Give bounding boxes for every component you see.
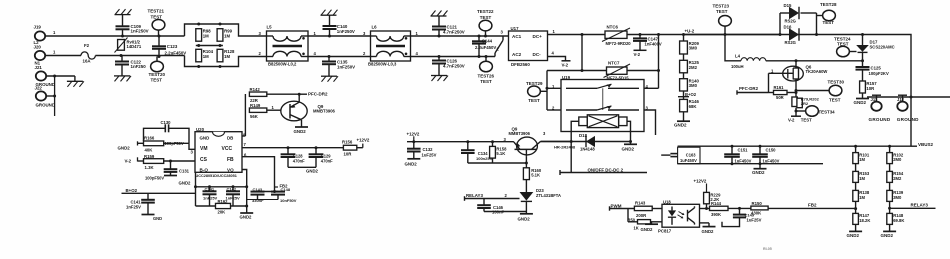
- wire drive riser: [244, 94, 246, 136]
- svg-text:TEST28: TEST28: [820, 2, 837, 7]
- svg-text:10R: 10R: [344, 152, 353, 157]
- capacitor C129 470nF: [315, 146, 318, 149]
- capacitor C163 1uF450V: [661, 154, 670, 156]
- capacitor C132 1uF25V: [413, 142, 415, 149]
- svg-text:TK20A60W: TK20A60W: [806, 69, 828, 74]
- svg-text:1M: 1M: [859, 195, 865, 200]
- svg-text:PWM: PWM: [611, 203, 622, 208]
- net FB2 tick: [275, 186, 279, 188]
- svg-text:PFC-DR2: PFC-DR2: [739, 86, 759, 91]
- svg-text:2.2uF450V: 2.2uF450V: [165, 50, 187, 55]
- svg-text:PC817: PC817: [658, 228, 672, 233]
- svg-text:5.1K: 5.1K: [496, 151, 505, 156]
- svg-text:TEST21: TEST21: [148, 9, 165, 14]
- resistor R161: [769, 92, 774, 94]
- svg-text:18.2K: 18.2K: [859, 218, 870, 223]
- earth ground near J21: [74, 76, 76, 81]
- svg-text:L6: L6: [372, 25, 378, 30]
- relay bottom switch: [566, 109, 597, 111]
- ground GND2 under Q9: [295, 126, 308, 128]
- ground GND2 under C131: [164, 175, 177, 177]
- resistor R139 3M0: [889, 182, 891, 190]
- svg-text:C131: C131: [179, 168, 190, 173]
- resistor R148 69.8K: [887, 213, 893, 224]
- svg-text:C144: C144: [482, 39, 493, 44]
- svg-text:GND2: GND2: [854, 100, 867, 105]
- svg-text:UCC28051D/UCC28051: UCC28051D/UCC28051: [196, 174, 237, 178]
- wire coil right lead: [627, 121, 631, 141]
- wire J21 to earth: [46, 75, 75, 77]
- wire to VM pin: [164, 142, 189, 144]
- svg-text:GND2: GND2: [702, 229, 715, 234]
- svg-text:1nF250V: 1nF250V: [337, 64, 355, 69]
- capacitor C130 100pF50V: [144, 128, 166, 141]
- wire B-O pin down: [195, 172, 197, 206]
- capacitor C126: [438, 55, 441, 58]
- net B+O2 tick: [683, 91, 685, 99]
- svg-text:3M0: 3M0: [689, 83, 698, 88]
- resistor R102 2M0: [888, 145, 891, 148]
- capacitor C147: [639, 33, 642, 36]
- svg-text:100pF50V: 100pF50V: [145, 176, 164, 181]
- svg-text:GND2: GND2: [306, 168, 319, 173]
- svg-text:TEST: TEST: [528, 98, 540, 103]
- svg-text:2M2: 2M2: [893, 176, 902, 181]
- svg-text:C143: C143: [253, 187, 263, 192]
- wire output top: [861, 33, 864, 36]
- resistor R209 3M0: [683, 35, 685, 42]
- resistor R140 3M0: [683, 73, 685, 79]
- svg-text:+12V2: +12V2: [357, 137, 370, 142]
- wire vcc caps gnd: [288, 166, 316, 168]
- wire to CS pin: [164, 160, 195, 162]
- svg-text:AC2: AC2: [512, 52, 522, 57]
- svg-text:2R2: 2R2: [801, 101, 809, 106]
- wire ground line J11 J12: [867, 96, 950, 98]
- svg-text:1M: 1M: [203, 54, 209, 59]
- svg-text:GND2: GND2: [752, 170, 765, 175]
- svg-text:1M: 1M: [224, 33, 230, 38]
- wire neutral to fuse: [45, 55, 81, 57]
- ground GND2 comp: [240, 212, 253, 214]
- svg-text:RI-05: RI-05: [763, 247, 772, 251]
- svg-text:B+O2: B+O2: [126, 188, 138, 193]
- fuse F2 16A: [81, 52, 95, 59]
- svg-text:GND2: GND2: [294, 129, 307, 134]
- svg-text:MMBT3906: MMBT3906: [313, 109, 336, 114]
- svg-text:2M0: 2M0: [893, 157, 902, 162]
- svg-text:R144: R144: [711, 201, 722, 206]
- capacitor C128 470nF: [287, 146, 290, 149]
- connector J19: [35, 31, 45, 40]
- wire J22 to trunk: [46, 95, 54, 97]
- svg-text:GND2: GND2: [674, 123, 687, 128]
- ground GND2 under C132: [407, 158, 420, 160]
- wire Q6 gate: [769, 72, 788, 74]
- ground GND2 opto out: [703, 226, 716, 228]
- capacitor C131 100pF50V: [170, 161, 172, 169]
- svg-text:VCC: VCC: [222, 146, 233, 152]
- sense resistors R79 R202: [792, 97, 797, 107]
- svg-text:J19: J19: [34, 25, 42, 30]
- resistor R50 1K: [627, 209, 629, 222]
- svg-text:TEST: TEST: [480, 15, 492, 20]
- svg-text:DFB2560: DFB2560: [511, 62, 530, 67]
- svg-text:J21: J21: [35, 65, 43, 70]
- wire comp top: [196, 186, 247, 188]
- wire resistor mid tie: [196, 45, 223, 47]
- svg-text:C150: C150: [766, 147, 777, 152]
- svg-text:1M: 1M: [224, 54, 230, 59]
- wire Q6 source: [795, 81, 797, 97]
- svg-text:69.8K: 69.8K: [893, 218, 904, 223]
- wire R149 to base: [267, 109, 281, 111]
- svg-text:RS2G: RS2G: [785, 18, 796, 23]
- wire DC- to V-2: [548, 57, 566, 61]
- zener D23 ZTL431BFTA: [525, 180, 527, 192]
- test point TEST26: [485, 55, 488, 58]
- wire relay left drop: [546, 71, 548, 111]
- svg-text:+12V2: +12V2: [694, 178, 707, 183]
- svg-text:TEST34: TEST34: [819, 109, 836, 114]
- svg-text:5.1K: 5.1K: [531, 173, 540, 178]
- svg-text:TEST22: TEST22: [477, 9, 494, 14]
- capacitor C150 1uF450V: [759, 145, 762, 148]
- svg-text:1nF25V: 1nF25V: [203, 196, 218, 201]
- ground GND under C141: [142, 214, 155, 216]
- svg-text:1.3K: 1.3K: [145, 165, 155, 170]
- svg-text:MMBT3906: MMBT3906: [509, 131, 531, 136]
- svg-text:R161: R161: [774, 85, 785, 90]
- relay actuator link: [602, 88, 604, 110]
- svg-text:B-O: B-O: [200, 167, 209, 172]
- svg-text:V-2: V-2: [788, 118, 795, 123]
- svg-text:D15: D15: [784, 3, 792, 8]
- svg-text:GND2: GND2: [405, 161, 418, 166]
- svg-text:10R: 10R: [866, 86, 875, 91]
- resistor R99 1M: [219, 23, 222, 26]
- svg-text:MF72-9RD20: MF72-9RD20: [606, 41, 632, 46]
- svg-text:TEST: TEST: [829, 98, 841, 103]
- svg-text:3M0: 3M0: [893, 195, 902, 200]
- svg-text:1nF250V: 1nF250V: [337, 29, 355, 34]
- resistor R147 18.2K: [855, 201, 857, 213]
- resistor R154 2M2: [889, 164, 891, 172]
- wire opto emitter: [700, 222, 710, 224]
- svg-text:NTC6: NTC6: [607, 25, 619, 30]
- wire Q9 to coil: [541, 140, 572, 142]
- svg-text:U17: U17: [511, 26, 520, 31]
- svg-text:1uF25V: 1uF25V: [747, 218, 762, 223]
- svg-text:RELAY3: RELAY3: [466, 193, 483, 198]
- wire PWM line: [610, 208, 635, 210]
- net V-2 tick below C147: [634, 49, 647, 51]
- svg-text:GND2: GND2: [622, 146, 635, 151]
- svg-text:470nF: 470nF: [321, 159, 333, 164]
- wire +U-2 rail: [684, 34, 781, 36]
- svg-text:10nF50V: 10nF50V: [280, 198, 297, 203]
- svg-text:330nF: 330nF: [252, 198, 264, 203]
- svg-text:1nF250: 1nF250: [131, 64, 147, 69]
- wire L6 to bridge bottom: [411, 56, 496, 58]
- net RELAY3: [889, 201, 891, 213]
- resistor R229 2.2K: [704, 192, 710, 203]
- svg-text:ON/OFF DC-DC 2: ON/OFF DC-DC 2: [588, 167, 624, 172]
- capacitor C149 1uF25V: [739, 208, 741, 214]
- wire L line top rail: [45, 35, 184, 37]
- capacitor C142 1nF25V: [232, 185, 235, 188]
- svg-text:1K: 1K: [634, 226, 639, 231]
- capacitor C135: [328, 55, 331, 58]
- ground GND2 bulk: [759, 164, 761, 169]
- svg-text:DB: DB: [227, 136, 233, 141]
- inductor L4 100uH: [725, 35, 741, 61]
- connector J12: [898, 94, 907, 96]
- svg-text:1N4148: 1N4148: [580, 147, 595, 152]
- svg-text:TEST29: TEST29: [526, 81, 543, 86]
- svg-text:C151: C151: [738, 147, 749, 152]
- wire DC+ rail: [548, 34, 863, 36]
- net V-2 tick: [562, 60, 571, 62]
- svg-text:470nF: 470nF: [293, 159, 305, 164]
- svg-text:TEST: TEST: [151, 14, 163, 19]
- ground GND2 divider: [683, 112, 685, 121]
- svg-text:TEST: TEST: [151, 78, 163, 83]
- svg-text:J22: J22: [35, 85, 43, 90]
- svg-text:TEST: TEST: [801, 118, 812, 123]
- wire DC+ to NTC7 branch: [581, 33, 584, 36]
- wire TEST29 to relay pin1: [540, 90, 547, 92]
- svg-text:FB: FB: [227, 157, 234, 163]
- svg-text:C130: C130: [161, 120, 172, 125]
- wire to R150: [728, 207, 751, 209]
- capacitor C125 100pF2KV: [862, 61, 864, 67]
- net PFC-DR2 label: [299, 93, 307, 95]
- svg-text:VBUS2: VBUS2: [918, 142, 934, 147]
- svg-text:1nF250V: 1nF250V: [131, 29, 149, 34]
- svg-text:B82500W-L0,3: B82500W-L0,3: [368, 62, 397, 67]
- capacitor C141 1nF25V left: [147, 193, 149, 200]
- capacitor C122: [121, 56, 123, 62]
- capacitor C141 1nF25V: [208, 185, 211, 188]
- wire C146 to gnd: [484, 211, 526, 213]
- wire NTC7 branch: [547, 70, 659, 72]
- svg-text:GND2: GND2: [118, 145, 131, 150]
- svg-text:56K: 56K: [250, 114, 259, 119]
- wire R142 to emitter: [267, 93, 299, 95]
- svg-text:GND2: GND2: [179, 180, 192, 185]
- capacitor C143 330nF: [258, 191, 275, 193]
- svg-text:C163: C163: [686, 152, 697, 157]
- svg-text:14D471: 14D471: [127, 44, 142, 49]
- wire source to V-2: [795, 108, 797, 117]
- resistor R128 1M: [217, 49, 223, 62]
- diode D17 SCS220AMC: [862, 35, 864, 46]
- svg-text:GND2: GND2: [240, 215, 253, 220]
- test point TEST34: [796, 110, 806, 112]
- diode D15 RS2G: [780, 12, 789, 14]
- wire VBUS2 top rail: [678, 145, 911, 147]
- varistor RV01/2 14D471: [118, 40, 125, 51]
- capacitor C151 1uF450V: [731, 145, 734, 148]
- svg-text:1uF25V: 1uF25V: [422, 152, 437, 157]
- ground GND2 relay coil: [630, 142, 632, 145]
- svg-text:DC+: DC+: [533, 34, 543, 39]
- resistor R162 20K: [196, 205, 216, 207]
- svg-text:TEST: TEST: [480, 79, 492, 84]
- svg-text:100pF2KV: 100pF2KV: [869, 71, 889, 76]
- svg-text:1nF400V: 1nF400V: [645, 41, 662, 46]
- capacitor C121: [431, 15, 447, 17]
- ground GND2 under D23: [520, 213, 533, 215]
- svg-text:2.2uF450V: 2.2uF450V: [475, 45, 496, 50]
- svg-text:TEST30: TEST30: [828, 80, 845, 85]
- svg-text:TEST23: TEST23: [713, 4, 730, 9]
- capacitor C134 100n25V: [466, 140, 469, 143]
- svg-text:68K: 68K: [689, 104, 698, 109]
- svg-text:+U-2: +U-2: [685, 29, 695, 34]
- svg-text:16A: 16A: [83, 59, 92, 64]
- resistor R159 1.3K: [138, 160, 144, 162]
- test point TEST20: [156, 57, 158, 62]
- svg-text:B+O2: B+O2: [685, 92, 697, 97]
- ground GND2 under R148: [889, 224, 891, 231]
- connector J11: [872, 94, 881, 96]
- wire emitter tie: [468, 162, 527, 164]
- svg-text:RELAY3: RELAY3: [911, 202, 929, 207]
- svg-text:40K: 40K: [145, 147, 154, 152]
- svg-text:VM: VM: [200, 146, 208, 152]
- net +12V2 at R156: [357, 147, 363, 149]
- svg-text:VO: VO: [227, 167, 234, 172]
- svg-text:1nF25V: 1nF25V: [126, 205, 141, 210]
- svg-text:1M: 1M: [859, 176, 865, 181]
- svg-text:1M: 1M: [203, 33, 209, 38]
- resistor R125 2M2: [683, 54, 685, 60]
- svg-text:SCS220AMC: SCS220AMC: [870, 44, 895, 49]
- wire fuse to bottom rail: [95, 55, 184, 57]
- ground GND2 under R147: [855, 224, 857, 231]
- svg-text:1nF25V: 1nF25V: [226, 196, 241, 201]
- svg-text:R150: R150: [752, 201, 763, 206]
- svg-text:GND: GND: [153, 216, 162, 221]
- svg-text:GND2: GND2: [881, 233, 894, 238]
- svg-text:NTC7: NTC7: [608, 61, 620, 66]
- wire coil left lead: [571, 121, 579, 141]
- wire bottom rail jog: [185, 56, 267, 67]
- svg-text:D16: D16: [784, 25, 792, 30]
- svg-text:GND2: GND2: [518, 216, 531, 221]
- svg-text:HR-2R2448: HR-2R2448: [554, 145, 576, 150]
- wire gnd bottom rail: [678, 163, 823, 165]
- svg-text:FB2: FB2: [808, 203, 817, 208]
- diode D18 1N4148: [541, 141, 631, 143]
- wire top rail jog: [185, 24, 267, 36]
- svg-text:50R: 50R: [776, 95, 784, 100]
- svg-text:J12: J12: [897, 97, 905, 102]
- net V-2 tick at source: [791, 115, 801, 117]
- wire diode branch riser right: [816, 13, 818, 35]
- wire ground trunk: [54, 76, 56, 116]
- svg-text:C141: C141: [205, 187, 215, 192]
- net VBUS2 label: [911, 145, 917, 147]
- svg-text:200R: 200R: [636, 213, 647, 218]
- svg-text:CS: CS: [200, 157, 208, 163]
- svg-text:20K: 20K: [218, 210, 226, 215]
- svg-text:L4: L4: [735, 53, 741, 58]
- wire AC2 diagonal: [494, 53, 496, 57]
- capacitor C144: [478, 35, 481, 38]
- svg-text:GROUND: GROUND: [897, 117, 919, 122]
- svg-text:AC1: AC1: [512, 34, 522, 39]
- svg-text:J20: J20: [34, 45, 42, 50]
- svg-text:GROUND: GROUND: [869, 117, 891, 122]
- svg-text:1M: 1M: [859, 157, 865, 162]
- ground GND2 under R157: [862, 93, 864, 99]
- svg-text:1uF450V: 1uF450V: [763, 158, 780, 163]
- svg-text:4.7nF250V: 4.7nF250V: [443, 29, 465, 34]
- svg-text:R143: R143: [635, 201, 646, 206]
- svg-text:B82500W-L0,2: B82500W-L0,2: [268, 62, 297, 67]
- svg-text:J11: J11: [871, 97, 878, 102]
- resistor R104 1M: [196, 49, 202, 62]
- diode D16 RS2G: [789, 28, 799, 41]
- svg-text:GND2: GND2: [641, 227, 654, 232]
- ground GND2 opto in: [651, 222, 653, 224]
- connector J22 ground: [36, 91, 46, 100]
- svg-text:PFC-DR2: PFC-DR2: [308, 92, 328, 97]
- svg-text:V-2: V-2: [562, 63, 569, 68]
- capacitor C140: [321, 14, 337, 16]
- svg-text:1uF450V: 1uF450V: [680, 158, 697, 163]
- svg-text:GND2: GND2: [847, 233, 860, 238]
- wire L5 to L6 top: [308, 35, 371, 37]
- resistor R160 5.1K: [525, 163, 527, 168]
- svg-text:C123: C123: [167, 44, 178, 49]
- resistor R98 1M: [197, 23, 200, 26]
- wire FB2 line: [768, 207, 856, 209]
- wire R166 input: [138, 142, 144, 144]
- wire to ON/OFF net: [570, 142, 572, 173]
- resistor R158 5.1K: [491, 140, 494, 143]
- test point TEST30: [795, 89, 798, 92]
- wire L4 to drain node: [766, 60, 863, 62]
- wire L5 to L6 bottom: [308, 56, 371, 58]
- svg-text:22R: 22R: [250, 98, 259, 103]
- wire VBUS2 bus: [863, 35, 912, 147]
- svg-text:+12V2: +12V2: [407, 131, 420, 136]
- svg-text:RS2G: RS2G: [785, 40, 796, 45]
- relay coil: [579, 117, 588, 126]
- svg-text:R50: R50: [628, 217, 636, 222]
- connector J20: [35, 51, 45, 60]
- svg-text:R166: R166: [144, 136, 155, 141]
- resistor R146 68K: [680, 99, 688, 111]
- MOSFET Q6 TK20A60W: [795, 59, 798, 62]
- svg-text:F2: F2: [84, 43, 90, 48]
- wire diode branch riser left: [779, 33, 782, 36]
- resistor R138 1M: [855, 182, 857, 190]
- connector J21 ground: [36, 71, 46, 80]
- capacitor C109: [115, 14, 131, 16]
- resistor R153 1M: [855, 164, 857, 172]
- svg-text:V-2: V-2: [634, 52, 641, 57]
- net PFC-DR2 gate: [737, 92, 769, 94]
- resistor R101 1M: [854, 145, 857, 148]
- svg-text:TEST: TEST: [823, 20, 835, 25]
- svg-text:R142: R142: [250, 87, 261, 92]
- svg-text:ZTL431BFTA: ZTL431BFTA: [536, 193, 561, 198]
